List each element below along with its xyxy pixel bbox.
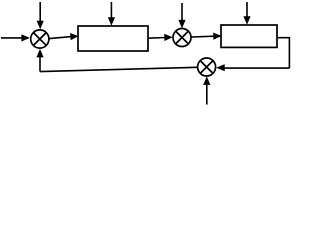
output wire of block 2 turning down <box>277 38 289 68</box>
block 1 (rectangle) <box>78 26 148 51</box>
input arrow (left) into summing junction 1 <box>1 37 23 39</box>
top arrow into summing junction 2 <box>181 3 183 21</box>
top arrow into block 2 <box>246 2 248 18</box>
top arrow into block 1 <box>110 2 112 19</box>
multiplier junction 1 (circle with X) <box>31 30 49 48</box>
top arrow into summing junction 1 <box>39 2 41 22</box>
wire junction 2 to block 2 <box>191 35 214 38</box>
bottom arrow into junction 3 <box>206 83 208 105</box>
wire block 1 to junction 2 <box>148 37 166 40</box>
feedback wire junction 3 to left corner <box>40 67 197 71</box>
multiplier junction 2 (circle with X) <box>173 29 191 47</box>
wire junction1 to block 1 <box>49 37 71 39</box>
feedback wire into junction 3 from right <box>222 67 289 69</box>
multiplier junction 3 (circle with X) <box>198 58 216 76</box>
block 2 (rectangle) <box>221 25 277 47</box>
feedback arrow into junction 1 from below <box>39 56 41 72</box>
